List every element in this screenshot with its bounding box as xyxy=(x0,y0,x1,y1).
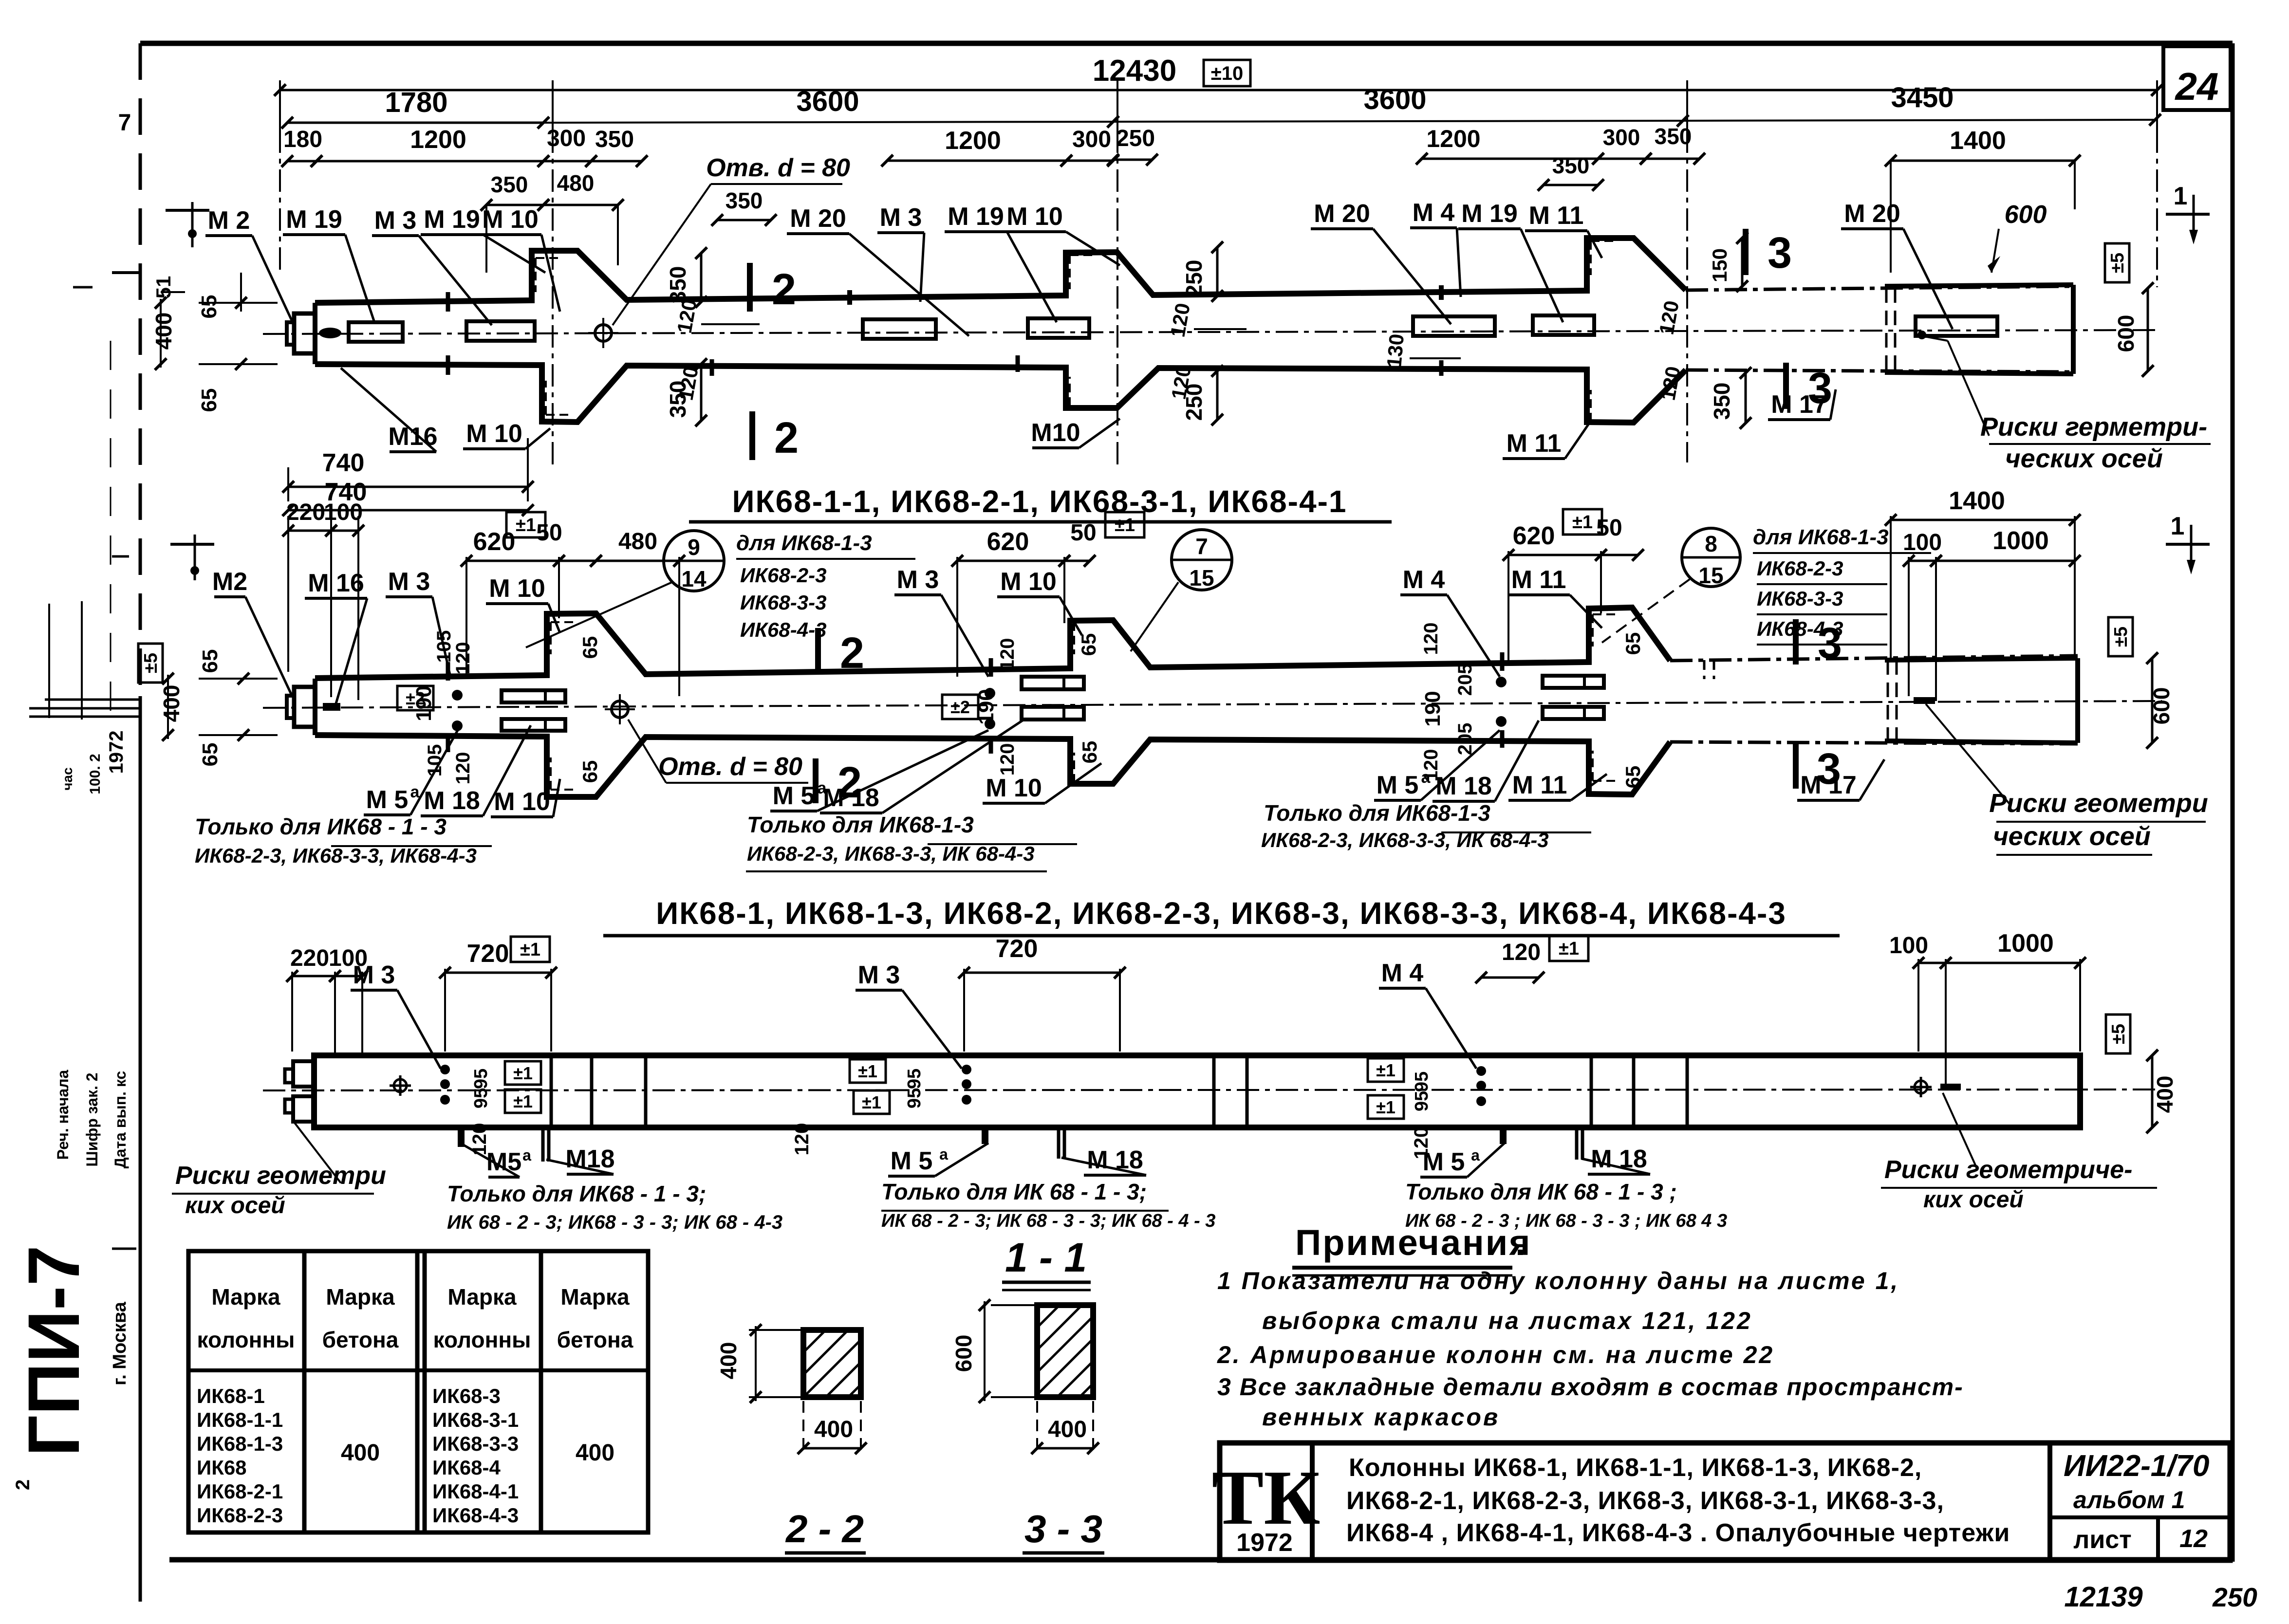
left margin signature lines xyxy=(45,699,140,701)
svg-text:ИК 68 - 2 - 3; ИК68 - 3 - 3; И: ИК 68 - 2 - 3; ИК68 - 3 - 3; ИК 68 - 4-3 xyxy=(447,1212,782,1233)
dim row3 segments xyxy=(287,160,316,163)
drawing1 small studs on edge xyxy=(319,328,341,338)
svg-text:М 11: М 11 xyxy=(1529,202,1584,230)
drawing3 centreline xyxy=(263,1089,2157,1090)
svg-text:ИК68-2-3, ИК68-3-3, ИК 68-4-3: ИК68-2-3, ИК68-3-3, ИК 68-4-3 xyxy=(1261,829,1549,851)
svg-text:120: 120 xyxy=(1502,940,1541,965)
drawing1 dim 350/250 console right2 xyxy=(1741,238,1744,286)
drawing3 pm1 boxes left xyxy=(505,1061,541,1085)
drawing1 right end hidden joint xyxy=(1885,288,1888,371)
svg-text:95: 95 xyxy=(471,1088,491,1108)
svg-text:ИК68-2-3, ИК68-3-3, ИК 68-4-: ИК68-2-3, ИК68-3-3, ИК 68-4-3 xyxy=(747,842,1035,865)
svg-text:±10: ±10 xyxy=(1211,63,1243,84)
svg-text:Колонны ИК68-1, ИК68-1-1, И: Колонны ИК68-1, ИК68-1-1, ИК68-1-3, ИК68… xyxy=(1349,1454,1922,1482)
svg-text:1: 1 xyxy=(2174,182,2188,210)
svg-text:65: 65 xyxy=(578,760,601,783)
svg-text:а: а xyxy=(522,1146,531,1164)
svg-text:бетона: бетона xyxy=(322,1327,399,1352)
svg-text:Риски геометри: Риски геометри xyxy=(1989,789,2208,818)
drawing2 console brackets dashed xyxy=(551,621,576,623)
drawing3 dims right 100/1000 xyxy=(1918,962,1946,964)
svg-text:1400: 1400 xyxy=(1950,127,2006,155)
drawing2 hidden dash verticals right of C3 xyxy=(1703,660,1706,679)
svg-text:ТК: ТК xyxy=(1212,1454,1321,1541)
drawing2 dim 620/50 mid xyxy=(957,560,1064,562)
svg-text:±1: ±1 xyxy=(858,1061,877,1081)
svg-text:Марка: Марка xyxy=(447,1284,517,1310)
drawing1 embedded plate right end xyxy=(1916,316,1997,336)
svg-text:Примечания: Примечания xyxy=(1295,1222,1531,1263)
svg-text:а: а xyxy=(939,1145,948,1163)
svg-text:ИК 68 - 2 - 3; ИК 68 - 3 - 3;: ИК 68 - 2 - 3; ИК 68 - 3 - 3; ИК 68 - 4 … xyxy=(881,1211,1215,1231)
drawing1 embedded plate M19 c xyxy=(1028,318,1089,338)
drawing1 embedded plate M3 mid xyxy=(863,319,936,339)
svg-text:М 20: М 20 xyxy=(1844,200,1900,228)
svg-text:Отв. d = 80: Отв. d = 80 xyxy=(706,154,850,182)
svg-text:ИК68-3-3: ИК68-3-3 xyxy=(432,1432,519,1455)
svg-text:300: 300 xyxy=(1603,125,1640,150)
svg-text:±1: ±1 xyxy=(513,1091,533,1111)
drawing3 studs below bar xyxy=(458,1128,465,1147)
svg-text:Только для ИК 68 - 1 - 3 ;: Только для ИК 68 - 1 - 3 ; xyxy=(1405,1179,1677,1204)
svg-text:М 5: М 5 xyxy=(891,1147,933,1175)
drawing2 pm2 box left xyxy=(397,686,433,710)
svg-text:лист: лист xyxy=(2073,1526,2131,1554)
svg-text:220: 220 xyxy=(286,499,325,525)
svg-text:100. 2: 100. 2 xyxy=(87,754,103,794)
svg-text:620: 620 xyxy=(1513,522,1555,550)
drawing2 left end cap M2 xyxy=(294,687,315,727)
svg-text:ИИ22-1/70: ИИ22-1/70 xyxy=(2064,1449,2209,1483)
svg-text:ГПИ-7: ГПИ-7 xyxy=(13,1245,94,1457)
svg-text:1200: 1200 xyxy=(1426,125,1480,152)
svg-text:ИК68-1-3: ИК68-1-3 xyxy=(197,1432,283,1455)
svg-text:ИК68-1-1, ИК68-2-1, ИК68-3-1,: ИК68-1-1, ИК68-2-1, ИК68-3-1, ИК68-4-1 xyxy=(732,484,1347,519)
svg-text:220: 220 xyxy=(290,945,329,971)
drawing2 dim 620/50/480 left xyxy=(466,560,559,562)
svg-text:480: 480 xyxy=(618,529,657,554)
drawing2 axis cross left xyxy=(170,543,214,546)
svg-text:для ИК68-1-3: для ИК68-1-3 xyxy=(1753,525,1889,549)
svg-text:ИК68-2-3: ИК68-2-3 xyxy=(740,564,826,587)
drawing3 dim 720 left xyxy=(445,972,551,974)
svg-text:9: 9 xyxy=(688,535,700,560)
drawing2 dim 1400/100/1000 right xyxy=(1891,519,2075,521)
svg-text:720: 720 xyxy=(996,935,1038,963)
svg-text:1: 1 xyxy=(2171,512,2185,540)
svg-text:М 3: М 3 xyxy=(388,568,430,596)
svg-text:альбом 1: альбом 1 xyxy=(2073,1486,2185,1513)
svg-text:ИК68-3-1: ИК68-3-1 xyxy=(432,1408,519,1431)
svg-text:Риски геометриче-: Риски геометриче- xyxy=(1884,1156,2132,1184)
svg-text:М 16: М 16 xyxy=(308,569,364,597)
svg-text:М 10: М 10 xyxy=(1000,568,1057,596)
drawing2 dim 220/100 xyxy=(288,530,331,532)
svg-text:бетона: бетона xyxy=(557,1327,633,1352)
sheet frame bottom border xyxy=(169,1557,2233,1563)
drawing2 column outline xyxy=(315,608,1670,678)
drawing2 centreline xyxy=(263,701,2162,708)
svg-text:1000: 1000 xyxy=(1997,929,2054,958)
drawing1 right end edge xyxy=(2071,285,2076,374)
dim extension verticals top xyxy=(279,80,281,130)
svg-text:М 19: М 19 xyxy=(1461,200,1518,228)
svg-text:ИК68-3-3: ИК68-3-3 xyxy=(740,591,826,614)
svg-text:ИК68-2-3, ИК68-3-3, ИК68-4-3: ИК68-2-3, ИК68-3-3, ИК68-4-3 xyxy=(195,844,477,867)
svg-text:3 - 3: 3 - 3 xyxy=(1024,1507,1102,1550)
svg-text:ИК68-4-3: ИК68-4-3 xyxy=(432,1504,519,1527)
svg-text:±1: ±1 xyxy=(1559,939,1579,959)
table vertical dividers xyxy=(302,1251,307,1532)
svg-text:1400: 1400 xyxy=(1949,487,2005,515)
drawing1 centreline xyxy=(263,330,2157,334)
dim 350/480 small left xyxy=(486,204,543,206)
drawing3 column outline xyxy=(314,1055,2080,1127)
left margin small marks xyxy=(112,271,139,274)
drawing2 hole Otv d80 xyxy=(612,701,628,718)
drawing2 right riska mark xyxy=(1914,697,1935,704)
drawing1 axis dashdot verticals xyxy=(552,130,554,467)
svg-text:М 2: М 2 xyxy=(208,206,250,235)
drawing3 right end dims xyxy=(2106,1015,2130,1053)
svg-text:М 11: М 11 xyxy=(1507,429,1562,458)
svg-text:Реч. начала: Реч. начала xyxy=(54,1070,72,1160)
svg-text:Дата вып. кс: Дата вып. кс xyxy=(112,1071,129,1168)
svg-text:100: 100 xyxy=(1889,933,1928,959)
svg-text:7: 7 xyxy=(1195,534,1208,559)
sheet frame right border xyxy=(2231,43,2235,1562)
drawing2 small edge studs xyxy=(446,662,450,681)
drawing3 riska mark right xyxy=(1940,1084,1961,1090)
svg-text:М 17: М 17 xyxy=(1800,771,1857,799)
svg-text:65: 65 xyxy=(1621,632,1644,655)
drawing3 dim 120 right xyxy=(1481,977,1539,979)
sheet frame top border xyxy=(140,41,2233,46)
drawing1 embedded plate M19 d xyxy=(1533,315,1594,335)
drawing2 dots mid xyxy=(985,688,995,699)
title block divider TK xyxy=(1310,1443,1315,1560)
drawing3 axis cross b xyxy=(1920,1077,1922,1097)
svg-text:7: 7 xyxy=(118,110,131,136)
svg-text:М 3: М 3 xyxy=(353,961,395,989)
svg-text:400: 400 xyxy=(151,313,176,350)
svg-text:95: 95 xyxy=(1412,1091,1432,1111)
svg-text:а: а xyxy=(410,783,420,801)
svg-text:ческих осей: ческих осей xyxy=(2005,444,2163,473)
svg-text:400: 400 xyxy=(576,1440,614,1466)
svg-text:ИК68: ИК68 xyxy=(197,1456,247,1479)
svg-text:1780: 1780 xyxy=(385,87,447,118)
svg-text:М 20: М 20 xyxy=(790,204,846,233)
drawing1 left end cap M2 xyxy=(294,314,315,353)
drawing3 pm1 boxes right xyxy=(1368,1058,1404,1082)
svg-text:95: 95 xyxy=(471,1069,491,1089)
svg-text:М 10: М 10 xyxy=(986,774,1042,802)
svg-text:620: 620 xyxy=(473,528,516,556)
svg-text:2: 2 xyxy=(774,414,799,462)
drawing1 section mark 2 top xyxy=(747,263,753,312)
drawing2 mark circle 8/15 xyxy=(1682,528,1740,587)
svg-text:300: 300 xyxy=(1072,127,1111,152)
svg-text:250: 250 xyxy=(1181,260,1207,297)
svg-text:ИК68-1-1: ИК68-1-1 xyxy=(197,1408,283,1431)
svg-text:205: 205 xyxy=(1454,664,1476,696)
svg-text:Марка: Марка xyxy=(560,1284,630,1310)
svg-text:Шифр зак. 2: Шифр зак. 2 xyxy=(83,1072,101,1166)
drawing2 mark circle 9/14 xyxy=(664,531,724,591)
svg-text:М 11: М 11 xyxy=(1512,771,1567,799)
drawing2 dim 740 xyxy=(288,509,528,512)
drawing1 embedded plate M20 right xyxy=(1413,316,1495,336)
svg-text:3600: 3600 xyxy=(796,86,859,117)
svg-text:120: 120 xyxy=(1420,623,1442,655)
svg-text:колонны: колонны xyxy=(433,1327,531,1352)
svg-text:а: а xyxy=(1471,1146,1480,1164)
svg-text:350: 350 xyxy=(1709,383,1734,420)
svg-text:ких осей: ких осей xyxy=(185,1193,285,1218)
drawing3 dot triples xyxy=(440,1065,450,1074)
svg-text:±2: ±2 xyxy=(406,688,425,708)
svg-text:г. Москва: г. Москва xyxy=(110,1301,130,1385)
svg-text:±1: ±1 xyxy=(520,940,540,960)
drawing1 console brackets dashed xyxy=(536,257,562,259)
svg-text:колонны: колонны xyxy=(197,1327,295,1352)
svg-text:2. Армирование колонн см.: 2. Армирование колонн см. на листе 22 xyxy=(1217,1341,1774,1368)
svg-text:120: 120 xyxy=(997,743,1018,776)
title block divider right xyxy=(2047,1443,2052,1560)
svg-text:±1: ±1 xyxy=(1572,512,1593,533)
drawing1 section mark 3 bottom xyxy=(1783,363,1789,409)
drawing2 section marks 2 xyxy=(815,628,821,674)
svg-text:250: 250 xyxy=(2212,1582,2257,1612)
svg-text:ИК68-3-3: ИК68-3-3 xyxy=(1757,587,1843,610)
dim 350 row mid xyxy=(717,219,771,221)
svg-text:М 3: М 3 xyxy=(858,961,900,989)
svg-text:350: 350 xyxy=(491,172,528,197)
drawing2 stud pair left M18 xyxy=(502,690,565,702)
svg-text:190: 190 xyxy=(1421,691,1445,726)
svg-text:250: 250 xyxy=(1116,126,1155,151)
svg-text:350: 350 xyxy=(595,127,634,152)
left margin vertical rules xyxy=(48,604,50,718)
svg-text:65: 65 xyxy=(197,388,221,412)
title block list cell xyxy=(2050,1515,2230,1519)
svg-text:ИК68-2-1: ИК68-2-1 xyxy=(197,1480,283,1503)
svg-text:Только для ИК68 - 1 - 3: Только для ИК68 - 1 - 3 xyxy=(195,814,447,839)
drawing1 hole Otv d80 xyxy=(595,325,612,341)
svg-text:1000: 1000 xyxy=(1992,527,2049,555)
svg-text:3: 3 xyxy=(1768,229,1792,277)
svg-text:М 10: М 10 xyxy=(482,205,539,234)
drawing1 embedded plate M19 a xyxy=(349,322,403,342)
svg-text:±1: ±1 xyxy=(1115,515,1135,535)
svg-text:Марка: Марка xyxy=(211,1284,280,1310)
drawing3 axis cross a xyxy=(399,1075,402,1096)
svg-text:М 5: М 5 xyxy=(1377,771,1419,799)
svg-text:8: 8 xyxy=(1705,531,1717,556)
drawing1 left end edge xyxy=(313,303,317,364)
title block outline xyxy=(1220,1443,2230,1560)
svg-text:600: 600 xyxy=(2113,315,2139,352)
svg-text:400: 400 xyxy=(341,1440,380,1466)
svg-text:для ИК68-1-3: для ИК68-1-3 xyxy=(736,531,872,555)
svg-text:600: 600 xyxy=(951,1335,976,1372)
svg-text:600: 600 xyxy=(2149,687,2174,725)
section 3-3 rect xyxy=(1037,1305,1093,1397)
svg-text:1200: 1200 xyxy=(945,127,1001,155)
svg-text:350: 350 xyxy=(726,188,763,213)
svg-text:1 - 1: 1 - 1 xyxy=(1005,1235,1087,1280)
svg-text:480: 480 xyxy=(557,170,595,196)
svg-text:12: 12 xyxy=(2179,1525,2208,1553)
svg-text:3450: 3450 xyxy=(1891,82,1954,113)
drawing1 column outline xyxy=(315,238,1686,303)
svg-text:±1: ±1 xyxy=(862,1092,881,1112)
svg-text:50: 50 xyxy=(1596,515,1622,541)
svg-text:ИК68-4-1: ИК68-4-1 xyxy=(432,1480,519,1503)
svg-text:±5: ±5 xyxy=(2107,253,2128,273)
drawing2 dots left xyxy=(452,690,463,701)
svg-text:2: 2 xyxy=(772,265,796,314)
drawing2 dim 620/50 right xyxy=(1508,554,1601,556)
svg-text:95: 95 xyxy=(904,1088,925,1108)
svg-text:65: 65 xyxy=(198,649,222,673)
svg-text:120: 120 xyxy=(452,752,474,785)
drawing2 mark circle 7/15 xyxy=(1172,530,1232,590)
svg-text:24: 24 xyxy=(2175,65,2219,108)
svg-text:120: 120 xyxy=(452,642,474,675)
svg-text:Только для ИК68-1-3: Только для ИК68-1-3 xyxy=(1264,800,1490,826)
drawing1 dim 350 console left xyxy=(700,253,703,302)
svg-text:М 3: М 3 xyxy=(374,206,417,235)
svg-text:М 19: М 19 xyxy=(424,205,480,234)
drawing3 dims top left 220/100 xyxy=(292,975,335,978)
svg-text:95: 95 xyxy=(1412,1071,1432,1092)
svg-text:ческих осей: ческих осей xyxy=(1993,822,2151,851)
svg-text:М 5: М 5 xyxy=(366,786,409,814)
drawing2 left end edge xyxy=(313,679,317,735)
svg-text:М 4: М 4 xyxy=(1403,566,1445,594)
svg-text:350: 350 xyxy=(1655,124,1692,149)
svg-text:65: 65 xyxy=(1621,766,1644,789)
svg-text:±1: ±1 xyxy=(516,515,536,535)
svg-text:50: 50 xyxy=(1070,520,1096,546)
svg-text:М 5: М 5 xyxy=(1423,1148,1465,1176)
svg-text:Марка: Марка xyxy=(326,1284,395,1310)
svg-text:ИК68-2-3: ИК68-2-3 xyxy=(1757,557,1843,580)
svg-text:М 3: М 3 xyxy=(897,566,939,594)
svg-text:выборка стали на листах 12: выборка стали на листах 121, 122 xyxy=(1262,1307,1752,1334)
svg-text:3 Все закладные детали вх: 3 Все закладные детали входят в состав п… xyxy=(1217,1373,1964,1401)
svg-text:1 Показатели на одну колон: 1 Показатели на одну колонну даны на лис… xyxy=(1217,1267,1899,1294)
svg-text:400: 400 xyxy=(159,685,184,722)
svg-text:400: 400 xyxy=(814,1417,853,1442)
svg-text:2 - 2: 2 - 2 xyxy=(785,1507,864,1550)
sheet number box 24 xyxy=(2163,46,2231,110)
svg-text:65: 65 xyxy=(198,743,222,767)
svg-text:1972: 1972 xyxy=(106,731,127,774)
svg-text:400: 400 xyxy=(2152,1076,2177,1113)
drawing1 dim 250 console right1 xyxy=(1216,247,1219,296)
svg-text:65: 65 xyxy=(1078,741,1101,764)
svg-text:51: 51 xyxy=(152,276,175,299)
svg-text:венных каркасов: венных каркасов xyxy=(1262,1403,1500,1431)
table header line xyxy=(188,1368,648,1372)
svg-text:3: 3 xyxy=(1818,619,1842,668)
dim 12430 overall xyxy=(280,89,2157,92)
svg-text:14: 14 xyxy=(681,566,707,591)
svg-text:Только для ИК68-1-3: Только для ИК68-1-3 xyxy=(747,812,974,837)
svg-text:180: 180 xyxy=(283,127,322,152)
svg-text:М 18: М 18 xyxy=(1435,772,1492,800)
svg-text:Только для ИК 68 - 1 - 3;: Только для ИК 68 - 1 - 3; xyxy=(881,1179,1147,1204)
drawing2 stud pair mid M18 xyxy=(1022,677,1084,689)
svg-text:ИК68-4: ИК68-4 xyxy=(432,1456,501,1479)
drawing1 axis cross left xyxy=(166,209,209,212)
svg-text:М 10: М 10 xyxy=(489,574,545,603)
section 2-2 square xyxy=(803,1330,861,1397)
svg-text:ИК68-1: ИК68-1 xyxy=(197,1384,265,1407)
svg-text:65: 65 xyxy=(197,295,221,319)
svg-text:400: 400 xyxy=(1048,1417,1087,1442)
svg-text:600: 600 xyxy=(2005,201,2047,229)
svg-text:час: час xyxy=(60,767,75,790)
drawing2 left dims 65/400/65 xyxy=(138,644,163,683)
drawing1 embedded plate M19 b xyxy=(466,321,535,341)
svg-text:М 18: М 18 xyxy=(424,787,480,815)
svg-text:М 20: М 20 xyxy=(1314,200,1370,228)
svg-text:15: 15 xyxy=(1698,563,1723,588)
svg-text:150: 150 xyxy=(1708,248,1731,282)
drawing3 joint lines xyxy=(550,1055,553,1127)
svg-text:50: 50 xyxy=(536,520,562,546)
drawing1 section mark 3 top xyxy=(1743,229,1749,275)
svg-text:±5: ±5 xyxy=(2111,627,2131,647)
drawing1 section mark 2 bottom xyxy=(749,411,755,460)
drawing3 pm1 boxes mid xyxy=(850,1059,886,1083)
svg-text:400: 400 xyxy=(716,1342,741,1380)
svg-text:2: 2 xyxy=(837,758,862,807)
drawing2 stud pair right M18 xyxy=(1543,676,1604,688)
svg-text:М 19: М 19 xyxy=(286,205,342,234)
drawing2 right end hidden joint xyxy=(1887,660,1889,741)
svg-text:М2: М2 xyxy=(212,568,247,596)
drawing2 axis cross right xyxy=(2166,543,2210,546)
svg-text:130: 130 xyxy=(1382,333,1408,369)
drawing2 M16 stud filled xyxy=(323,703,340,711)
svg-text:3: 3 xyxy=(1808,364,1832,413)
drawing2 dots right xyxy=(1496,677,1507,687)
svg-text:ИК68-3: ИК68-3 xyxy=(432,1384,501,1407)
sheet frame left border xyxy=(139,43,142,696)
svg-text:±5: ±5 xyxy=(141,653,161,673)
svg-text:15: 15 xyxy=(1189,565,1214,591)
svg-text:ИК68-1, ИК68-1-3, ИК68-2, ИК6: ИК68-1, ИК68-1-3, ИК68-2, ИК68-2-3, ИК68… xyxy=(656,896,1787,931)
drawing3 left end cap xyxy=(293,1061,314,1087)
svg-text:ИК68-2-3: ИК68-2-3 xyxy=(197,1504,283,1527)
drawing2 section marks 3 xyxy=(1793,619,1799,664)
svg-text:65: 65 xyxy=(578,636,601,659)
svg-text:М 4: М 4 xyxy=(1381,959,1424,987)
svg-text:100: 100 xyxy=(1903,530,1942,555)
svg-text:205: 205 xyxy=(1454,723,1476,756)
svg-text:М 18: М 18 xyxy=(1591,1145,1647,1173)
svg-text:М 10: М 10 xyxy=(466,420,522,448)
svg-text:±1: ±1 xyxy=(513,1063,533,1083)
svg-text:740: 740 xyxy=(322,449,365,477)
svg-text:±2: ±2 xyxy=(950,697,970,717)
svg-text:Риски герметри-: Риски герметри- xyxy=(1980,412,2207,442)
